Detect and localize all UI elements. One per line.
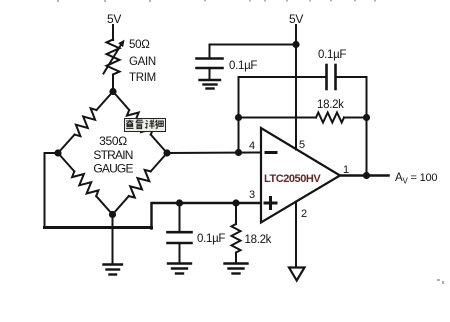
- top edge cropped text remnants: [57, 0, 376, 2]
- wire 5V down to op-amp pin 5: [295, 25, 297, 150]
- svg-text:GAUGE: GAUGE: [93, 162, 133, 176]
- wire 5V junction to bypass cap: [210, 45, 297, 58]
- wire 5V to gain trim pot: [112, 25, 114, 40]
- wire bridge bottom to ground: [112, 215, 114, 265]
- node bridge top junction: [109, 88, 116, 95]
- op-amp minus sign: [266, 151, 276, 154]
- svg-text:0.1µF: 0.1µF: [197, 233, 225, 245]
- node bridge left vertex: [54, 149, 61, 156]
- potentiometer R1 50 ohm GAIN TRIM: [107, 40, 120, 75]
- capacitor C3 0.1uF feedback: [327, 65, 336, 89]
- tooltip 查看详细 hotspot box: [124, 118, 166, 132]
- svg-text:TRIM: TRIM: [129, 72, 156, 84]
- signal ground open triangle at pin 2: [289, 268, 305, 281]
- wire pot to bridge top: [112, 75, 114, 92]
- strain gauge bridge arm bottom-right: [113, 153, 168, 215]
- strain gauge bridge arm top-right: [113, 92, 167, 154]
- capacitor C1 0.1uF bypass: [197, 59, 223, 80]
- wire feedback right vertical to output: [366, 77, 368, 176]
- svg-text:5V: 5V: [289, 12, 303, 26]
- svg-text:50Ω: 50Ω: [129, 39, 150, 51]
- svg-text:18.2k: 18.2k: [245, 234, 272, 246]
- ground under C1: [200, 80, 221, 89]
- node plus rail / 0.1uF branch: [176, 199, 183, 206]
- capacitor C2 0.1uF (plus input filter): [168, 203, 192, 263]
- svg-text:LTC2050HV: LTC2050HV: [264, 173, 321, 185]
- svg-text:0.1µF: 0.1µF: [318, 49, 346, 61]
- svg-text:2: 2: [301, 208, 307, 220]
- node 5V bypass junction: [292, 41, 299, 48]
- resistor R3 18.2k (plus input to ground): [232, 203, 241, 263]
- node bridge bottom vertex: [109, 211, 116, 218]
- svg-text:3: 3: [249, 189, 255, 201]
- op-amp plus sign: [265, 198, 276, 209]
- node output junction: [363, 172, 370, 179]
- wire feedback top rail left part: [239, 76, 326, 78]
- op-amp U1 LTC2050HV triangle: [261, 128, 340, 223]
- svg-text:5: 5: [299, 139, 305, 151]
- label Av = 100: [395, 172, 437, 186]
- wire bridge left vertex to plus-input rail: [45, 153, 59, 228]
- svg-text:5V: 5V: [107, 12, 121, 26]
- svg-text:4: 4: [249, 140, 255, 152]
- svg-text:350Ω: 350Ω: [99, 134, 127, 148]
- node plus rail / 18.2k branch: [232, 199, 239, 206]
- wire feedback left vertical: [238, 77, 240, 153]
- wire 18.2k feedback rail left: [239, 117, 317, 119]
- svg-text:STRAIN: STRAIN: [93, 148, 132, 162]
- svg-text:V: V: [403, 177, 409, 186]
- node feedback left / 18.2k rail: [235, 114, 242, 121]
- potentiometer arrow: [104, 40, 125, 74]
- svg-text:0.1µF: 0.1µF: [229, 60, 257, 72]
- wire feedback top rail right part: [337, 76, 367, 78]
- value label 350 ohm STRAIN GAUGE: [93, 134, 133, 176]
- svg-text:= 100: = 100: [411, 172, 438, 184]
- bottom-right faint artifact: [437, 279, 444, 284]
- wire bottom rail: [45, 226, 152, 229]
- strain gauge bridge arm bottom-left: [58, 153, 113, 215]
- svg-text:GAIN: GAIN: [129, 56, 156, 68]
- node feedback tap on minus input: [235, 149, 242, 156]
- wire output: [340, 174, 389, 177]
- node feedback right / 18.2k rail: [363, 114, 370, 121]
- svg-text:18.2k: 18.2k: [317, 99, 344, 111]
- strain gauge bridge arm top-left: [58, 92, 113, 154]
- wire op-amp pin 2 to signal ground: [295, 202, 297, 266]
- node bridge right vertex: [163, 149, 170, 156]
- wire 18.2k feedback rail right: [344, 117, 367, 119]
- wire bridge right vertex to minus input: [167, 152, 261, 155]
- ground under C2: [168, 264, 191, 274]
- ground under R3: [225, 264, 248, 274]
- resistor R2 18.2k feedback: [316, 113, 344, 123]
- wire rail step up to plus input line: [152, 203, 261, 229]
- ground bridge bottom: [104, 265, 123, 275]
